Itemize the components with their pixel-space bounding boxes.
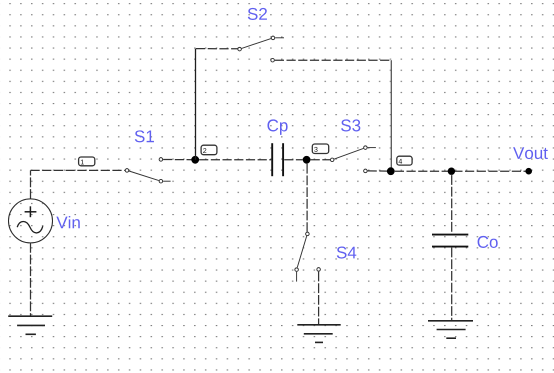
label Vin (56, 216, 79, 228)
switch S4 (295, 232, 321, 281)
ground below Vin (8, 316, 52, 334)
key box 1 (79, 157, 95, 166)
label S3 (341, 119, 360, 131)
wire node C down to S4 (306, 164, 308, 232)
node D junction (448, 168, 455, 175)
wire node D down to Co (451, 175, 453, 234)
node Vout terminal (525, 168, 532, 175)
label S1 (135, 130, 154, 142)
label Vout (513, 147, 548, 159)
wire S4 to ground (318, 272, 320, 324)
wire S1 to node A (163, 159, 194, 161)
ground below S4 (297, 325, 340, 343)
wire output rail (395, 170, 526, 172)
wire S3 to node B (368, 170, 387, 172)
switch S2 (238, 36, 284, 62)
source Vin (9, 199, 53, 243)
wire Co to ground (451, 248, 453, 320)
wire Vin to ground (30, 243, 32, 316)
wire Cp to node C (284, 159, 303, 161)
wire node A up (195, 49, 197, 160)
key box 2 (201, 145, 217, 155)
switch S1 (125, 158, 170, 183)
ground below Co (428, 321, 473, 338)
label Co (478, 236, 498, 248)
wire node C to S3 (311, 159, 331, 161)
node C junction (303, 156, 311, 164)
label S2 (248, 8, 267, 20)
node A junction (191, 156, 199, 164)
wire node A to Cp (199, 159, 271, 161)
wire top rail to S2 (196, 48, 238, 50)
node B junction (387, 167, 395, 175)
wire S2 return to node B (275, 59, 392, 61)
capacitor Cp (272, 143, 283, 176)
key box 3 (312, 144, 328, 154)
switch S3 (330, 146, 375, 173)
key box 4 (397, 156, 412, 165)
label Cp (267, 119, 287, 134)
wire S2 corner down (390, 60, 392, 168)
wire Vin top to S1 (30, 170, 32, 199)
capacitor Co (432, 235, 468, 247)
label S4 (337, 247, 357, 259)
